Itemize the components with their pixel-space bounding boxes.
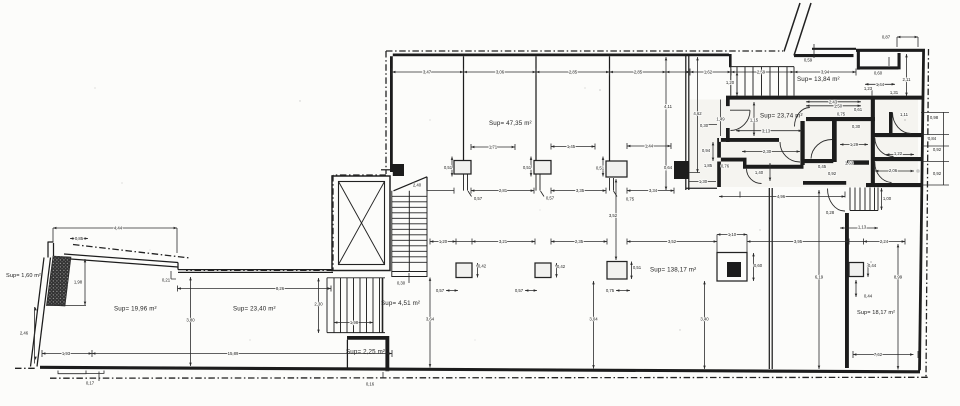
svg-text:3,21: 3,21 [499, 239, 508, 244]
svg-text:0,17: 0,17 [86, 381, 95, 386]
svg-text:0,44: 0,44 [868, 263, 877, 268]
svg-text:0,76: 0,76 [721, 164, 730, 169]
svg-text:Sup= 19,96 m²: Sup= 19,96 m² [114, 306, 157, 313]
svg-text:1,45: 1,45 [567, 144, 576, 149]
svg-text:2,40: 2,40 [413, 183, 422, 188]
svg-text:3,34: 3,34 [649, 188, 658, 193]
svg-text:1,10: 1,10 [728, 232, 737, 237]
svg-text:Sup= 138,17 m²: Sup= 138,17 m² [650, 267, 696, 274]
svg-text:1,40: 1,40 [755, 170, 764, 175]
svg-text:1,23: 1,23 [864, 86, 873, 91]
svg-text:0,51: 0,51 [523, 165, 532, 170]
svg-text:0,28: 0,28 [826, 210, 835, 215]
svg-text:3,13: 3,13 [762, 128, 771, 133]
svg-text:4,62: 4,62 [693, 111, 702, 116]
svg-text:0,30: 0,30 [397, 281, 406, 286]
svg-text:0,42: 0,42 [478, 264, 487, 269]
svg-text:4,11: 4,11 [664, 104, 673, 109]
svg-text:1,85: 1,85 [704, 163, 713, 168]
svg-text:0,57: 0,57 [474, 196, 483, 201]
svg-text:0,85: 0,85 [75, 236, 84, 241]
svg-text:Sup= 4,51 m²: Sup= 4,51 m² [381, 300, 420, 307]
svg-text:3,94: 3,94 [821, 70, 830, 75]
svg-text:3,80: 3,80 [186, 318, 195, 323]
svg-text:2,35: 2,35 [575, 239, 584, 244]
svg-text:0,57: 0,57 [515, 288, 524, 293]
svg-text:1,49: 1,49 [716, 117, 725, 122]
svg-text:0,57: 0,57 [546, 196, 555, 201]
svg-text:1,22: 1,22 [894, 151, 903, 156]
svg-text:2,24: 2,24 [880, 239, 889, 244]
svg-text:0,94: 0,94 [702, 148, 711, 153]
svg-text:Sup= 13,84 m²: Sup= 13,84 m² [797, 76, 840, 83]
svg-text:0,61: 0,61 [854, 107, 863, 112]
svg-text:1,00: 1,00 [883, 196, 892, 201]
svg-text:15,89: 15,89 [228, 351, 239, 356]
svg-text:0,51: 0,51 [596, 166, 605, 171]
svg-text:1,63: 1,63 [845, 161, 854, 166]
svg-text:3,06: 3,06 [496, 70, 505, 75]
svg-text:0,44: 0,44 [864, 294, 873, 299]
svg-text:Sup= 2,25 m²: Sup= 2,25 m² [346, 349, 385, 356]
svg-text:3,04: 3,04 [589, 317, 598, 322]
svg-text:2,85: 2,85 [569, 70, 578, 75]
svg-text:3,47: 3,47 [423, 70, 432, 75]
svg-text:0,75: 0,75 [626, 197, 635, 202]
svg-text:0,42: 0,42 [557, 264, 566, 269]
svg-text:7,62: 7,62 [874, 352, 883, 357]
svg-text:1,44: 1,44 [645, 144, 654, 149]
svg-text:0,21: 0,21 [162, 278, 171, 283]
svg-text:3,52: 3,52 [668, 239, 677, 244]
svg-text:0,92: 0,92 [933, 147, 942, 152]
svg-text:8,99: 8,99 [894, 275, 903, 280]
svg-text:1,13: 1,13 [858, 225, 867, 230]
svg-text:0,60: 0,60 [754, 263, 763, 268]
svg-text:2,30: 2,30 [763, 149, 772, 154]
svg-text:0,59: 0,59 [804, 58, 813, 63]
svg-text:2,46: 2,46 [20, 331, 29, 336]
svg-text:1,30: 1,30 [699, 179, 708, 184]
svg-text:1,20: 1,20 [726, 80, 735, 85]
svg-text:1,98: 1,98 [350, 320, 359, 325]
svg-text:3,64: 3,64 [426, 317, 435, 322]
svg-text:3,40: 3,40 [700, 317, 709, 322]
svg-text:0,87: 0,87 [882, 35, 891, 40]
svg-text:0,57: 0,57 [436, 288, 445, 293]
svg-text:1,62: 1,62 [704, 70, 713, 75]
svg-text:Sup= 18,17 m²: Sup= 18,17 m² [857, 310, 895, 316]
svg-text:0,30: 0,30 [700, 123, 709, 128]
svg-text:1,44: 1,44 [876, 82, 885, 87]
svg-text:2,06: 2,06 [889, 168, 898, 173]
svg-text:Sup= 23,74 m²: Sup= 23,74 m² [760, 113, 803, 120]
svg-text:1,50: 1,50 [834, 103, 843, 108]
svg-text:1,20: 1,20 [439, 239, 448, 244]
svg-text:2,11: 2,11 [902, 77, 911, 82]
svg-text:0,16: 0,16 [366, 382, 375, 387]
svg-text:3,95: 3,95 [794, 239, 803, 244]
svg-text:4,44: 4,44 [114, 226, 123, 231]
svg-text:0,51: 0,51 [633, 265, 642, 270]
svg-text:0,45: 0,45 [818, 164, 827, 169]
svg-text:Sup= 1,60 m²: Sup= 1,60 m² [6, 273, 41, 279]
svg-text:2,59: 2,59 [757, 70, 766, 75]
svg-text:3,52: 3,52 [609, 213, 618, 218]
svg-text:0,51: 0,51 [444, 165, 453, 170]
svg-text:3,35: 3,35 [576, 188, 585, 193]
svg-text:1,29: 1,29 [850, 142, 859, 147]
svg-text:1,31: 1,31 [890, 90, 899, 95]
svg-text:2,30: 2,30 [314, 302, 323, 307]
svg-text:0,30: 0,30 [852, 124, 861, 129]
svg-text:Sup= 47,35 m²: Sup= 47,35 m² [489, 120, 532, 127]
svg-text:2,85: 2,85 [634, 70, 643, 75]
svg-text:1,93: 1,93 [62, 351, 71, 356]
svg-text:2,81: 2,81 [499, 188, 508, 193]
svg-text:0,60: 0,60 [874, 71, 883, 76]
svg-text:4,96: 4,96 [777, 194, 786, 199]
svg-text:8,26: 8,26 [276, 286, 285, 291]
svg-text:0,75: 0,75 [837, 112, 846, 117]
svg-text:1,15: 1,15 [750, 118, 759, 123]
svg-text:0,64: 0,64 [664, 165, 673, 170]
svg-text:0,75: 0,75 [606, 288, 615, 293]
svg-text:1,98: 1,98 [74, 280, 83, 285]
svg-text:Sup= 23,40 m²: Sup= 23,40 m² [233, 306, 276, 313]
svg-text:0,84: 0,84 [928, 136, 937, 141]
svg-text:1,11: 1,11 [900, 112, 909, 117]
svg-text:0,98: 0,98 [930, 115, 939, 120]
svg-text:6,19: 6,19 [815, 275, 824, 280]
svg-text:1,71: 1,71 [489, 145, 498, 150]
svg-text:0,92: 0,92 [828, 171, 837, 176]
svg-text:0,92: 0,92 [933, 171, 942, 176]
